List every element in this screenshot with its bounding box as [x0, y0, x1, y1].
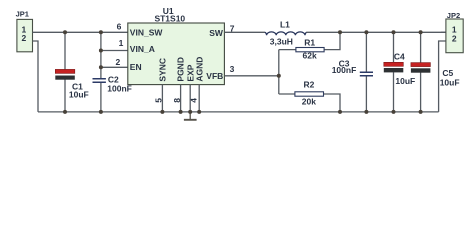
junction: output rail / C4 [392, 30, 396, 34]
svg-text:AGND: AGND [194, 57, 204, 82]
junction: ground rail / C5 [419, 110, 423, 114]
svg-text:ST1S10: ST1S10 [154, 14, 185, 24]
IC U1 ST1S10 [128, 6, 225, 85]
junction: ground rail / C3 [364, 110, 368, 114]
svg-text:C4: C4 [394, 51, 405, 61]
junction: ground rail / R2 [338, 110, 342, 114]
svg-text:VIN_A: VIN_A [130, 44, 155, 54]
capacitor C3 [332, 58, 373, 75]
junction: output rail / C3 [364, 30, 368, 34]
wire: C1 branch [64, 32, 66, 112]
wire: branch to VIN_A / EN / C2 [100, 32, 102, 112]
wire: output rail to JP2.1 [306, 31, 446, 33]
junction: ground rail / SYNC [160, 110, 164, 114]
resistor R1 [279, 32, 340, 60]
junction: ground rail / PGND [179, 110, 183, 114]
svg-text:10uF: 10uF [69, 89, 89, 99]
svg-text:10uF: 10uF [440, 77, 460, 87]
svg-text:PGND: PGND [176, 57, 186, 82]
wire: JP2 pin 1 stub [441, 31, 446, 33]
wire: SW output to inductor [224, 31, 265, 33]
junction: input rail / C1 [63, 30, 67, 34]
svg-text:EN: EN [130, 62, 142, 72]
wire: AGND pin 4 down [198, 85, 200, 112]
wire: C5 branch [420, 32, 422, 112]
junction: branch / EN [99, 65, 103, 69]
svg-text:2: 2 [452, 33, 457, 43]
svg-text:2: 2 [22, 33, 27, 43]
junction: ground rail / C2 [99, 110, 103, 114]
junction: output rail / C5 [419, 30, 423, 34]
svg-text:6: 6 [117, 22, 122, 32]
junction: output rail / R1 [338, 30, 342, 34]
inductor L1 [265, 19, 307, 46]
svg-text:100nF: 100nF [332, 65, 357, 75]
svg-text:JP1: JP1 [16, 10, 29, 19]
wire: ground rail [38, 111, 439, 113]
svg-text:2: 2 [115, 57, 120, 67]
svg-text:L1: L1 [280, 19, 290, 29]
junction: ground rail / AGND [197, 110, 201, 114]
wire: VFB (pin 3) to divider node [224, 75, 278, 77]
capacitor C2 [93, 75, 132, 94]
svg-text:62k: 62k [303, 50, 317, 60]
capacitor C5 [411, 63, 460, 88]
wire: VIN_A pin stub [101, 50, 128, 52]
svg-text:VFB: VFB [206, 71, 223, 81]
wire: EN pin stub [101, 66, 128, 68]
wire: C4 branch [393, 32, 395, 112]
junction: ground rail / C4 [392, 110, 396, 114]
resistor R2 [279, 79, 340, 112]
capacitor C4 [384, 51, 415, 86]
junction: branch / VIN_A [99, 49, 103, 53]
svg-text:3,3uH: 3,3uH [270, 37, 293, 47]
junction: VFB node [277, 74, 281, 78]
svg-text:JP2: JP2 [447, 11, 460, 20]
svg-text:R1: R1 [304, 37, 315, 47]
svg-text:1: 1 [119, 38, 124, 48]
svg-text:R2: R2 [303, 79, 314, 89]
junction: ground rail / EXP [188, 110, 192, 114]
svg-text:3: 3 [230, 64, 235, 74]
wire: divider vertical [278, 50, 280, 94]
svg-text:10uF: 10uF [395, 76, 415, 86]
wire: JP1 pin 2 down to ground rail [33, 41, 39, 112]
svg-text:VIN_SW: VIN_SW [130, 27, 164, 37]
wire: input rail JP1.1 to U1 VIN_SW (pin 6) [33, 31, 128, 33]
wire: EXP pin down [189, 85, 191, 112]
ground [184, 112, 197, 120]
wire: C3 branch [365, 32, 367, 112]
wire: JP2 pin 2 down to ground rail [439, 41, 446, 112]
connector JP2 [446, 11, 463, 53]
svg-text:20k: 20k [302, 96, 316, 106]
wire: PGND pin 8 down [180, 85, 182, 112]
wire: SYNC pin 5 down [161, 85, 163, 112]
svg-text:SW: SW [209, 28, 224, 38]
svg-text:SYNC: SYNC [158, 58, 168, 82]
capacitor C1 [55, 69, 88, 99]
connector JP1 [16, 10, 33, 52]
junction: input rail / branch [99, 30, 103, 34]
junction: ground rail / C1 [63, 110, 67, 114]
